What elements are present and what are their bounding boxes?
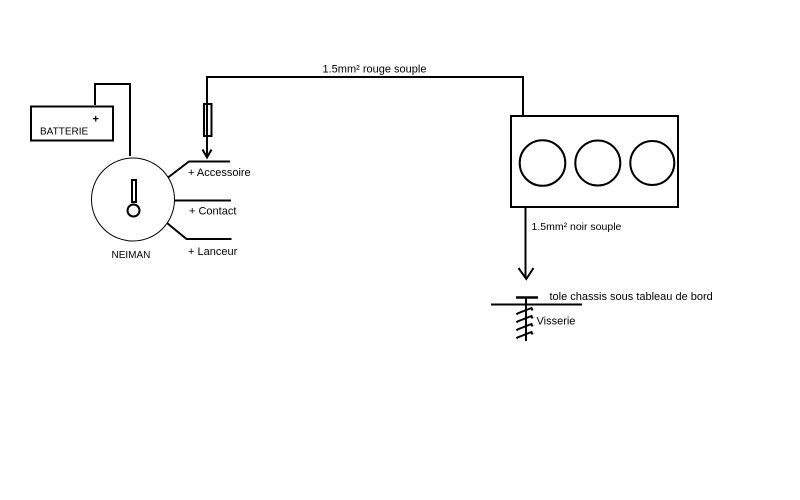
svg-text:NEIMAN: NEIMAN [112,250,151,261]
svg-text:+: + [93,114,99,126]
svg-text:+ Contact: + Contact [189,206,236,218]
svg-text:tole chassis sous tableau de b: tole chassis sous tableau de bord [550,291,713,303]
svg-text:+ Accessoire: + Accessoire [188,167,251,179]
svg-text:1.5mm² noir souple: 1.5mm² noir souple [532,221,622,233]
svg-text:BATTERIE: BATTERIE [40,127,88,138]
svg-text:Visserie: Visserie [537,316,576,328]
svg-text:1.5mm² rouge souple: 1.5mm² rouge souple [323,64,427,76]
svg-text:+ Lanceur: + Lanceur [188,246,238,258]
